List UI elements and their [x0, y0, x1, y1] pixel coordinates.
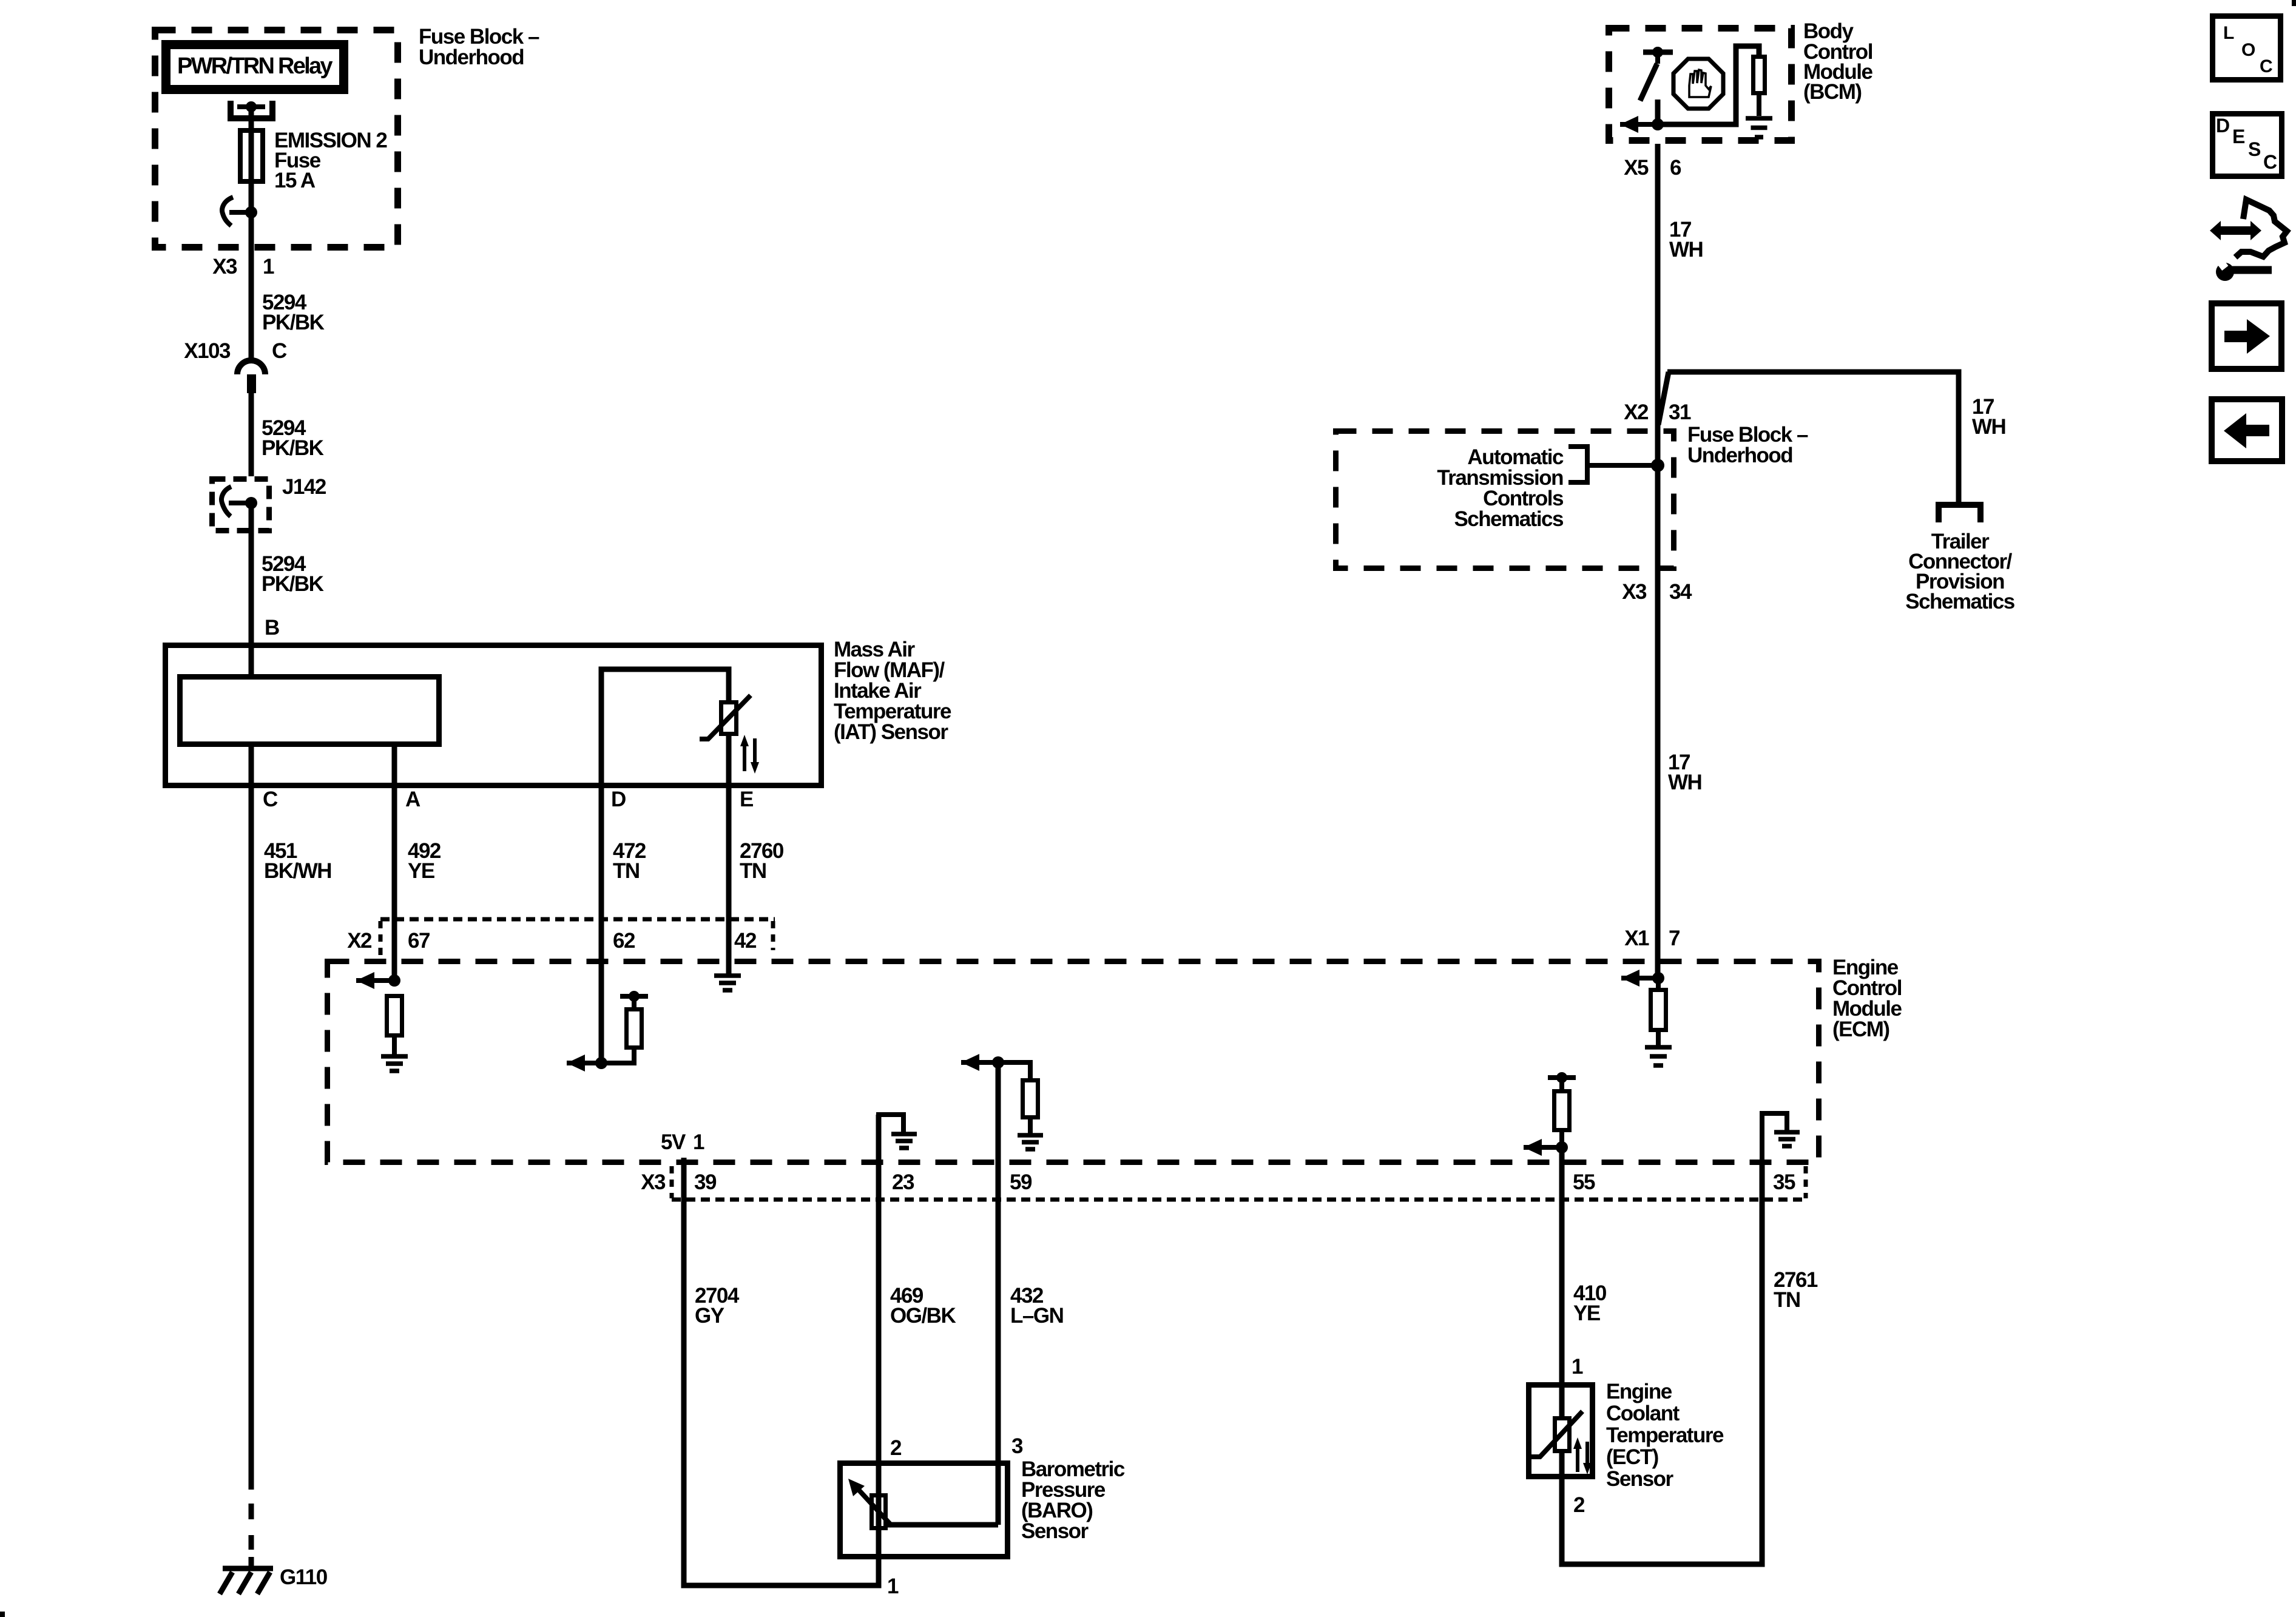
wire ECT 2 to 2761 TN — [1562, 1453, 1765, 1564]
fuse block underhood box (middle right) — [1336, 431, 1674, 569]
ECM pin 42 internal ground — [714, 976, 741, 990]
svg-text:59: 59 — [1010, 1170, 1032, 1194]
svg-text:34: 34 — [1669, 580, 1692, 604]
svg-text:C: C — [272, 339, 287, 363]
svg-text:X3: X3 — [212, 255, 237, 279]
svg-text:1: 1 — [693, 1130, 704, 1154]
switch contact hook — [222, 197, 233, 226]
icon next arrow box — [2212, 303, 2281, 369]
svg-text:BK/WH: BK/WH — [264, 859, 331, 883]
connector X3 band (ECM bottom) — [672, 1198, 1806, 1202]
fuse F1 EMISSION 2 15A — [240, 130, 263, 181]
ECM pin 59 internal: arrow, resistor, ground — [961, 1054, 979, 1071]
svg-text:1: 1 — [887, 1575, 899, 1598]
svg-text:42: 42 — [734, 929, 757, 953]
wire 451 BK/WH (C to G110) — [249, 747, 254, 1490]
svg-text:67: 67 — [408, 929, 430, 953]
svg-text:TN: TN — [613, 859, 640, 883]
svg-text:39: 39 — [694, 1170, 717, 1194]
wire fuse block exit to X103 — [249, 212, 254, 363]
trailer connector half symbol — [1939, 505, 1980, 522]
wire dashed to ground — [249, 1504, 254, 1567]
node fuse block junction — [1651, 459, 1664, 472]
relay contact terminals — [231, 101, 272, 118]
svg-text:C: C — [263, 788, 278, 811]
svg-text:A: A — [405, 788, 420, 811]
icon diagnostic wrench — [2210, 221, 2261, 240]
svg-text:TN: TN — [740, 859, 766, 883]
ECT sensor box — [1529, 1385, 1593, 1477]
wire branch to trailer — [1658, 372, 1669, 425]
icon back arrow box — [2212, 399, 2282, 461]
icon DESC box — [2213, 114, 2282, 177]
svg-text:1: 1 — [263, 255, 274, 279]
wire J142 to MAF — [249, 503, 254, 674]
wire 492 YE (A to ECM 67) — [392, 747, 397, 981]
ATC bracket symbol — [1568, 447, 1587, 482]
svg-text:J142: J142 — [282, 475, 326, 499]
splice J142 box — [212, 479, 269, 531]
svg-text:2: 2 — [890, 1436, 902, 1460]
ECM pin 23 internal ground hook — [879, 1115, 903, 1165]
svg-text:(IAT) Sensor: (IAT) Sensor — [834, 720, 948, 744]
wire through fuse block — [1655, 428, 1661, 571]
svg-text:Schematics: Schematics — [1454, 507, 1564, 531]
svg-text:TN: TN — [1774, 1288, 1800, 1312]
svg-text:PK/BK: PK/BK — [262, 311, 325, 334]
BCM box — [1609, 29, 1792, 141]
svg-text:62: 62 — [613, 929, 635, 953]
svg-text:E: E — [740, 788, 753, 811]
svg-text:Underhood: Underhood — [419, 46, 524, 69]
connector X103 symbol — [237, 360, 265, 374]
wire 17 WH (BCM to fuse block) — [1655, 144, 1661, 428]
ECM pin X1-7 internal: arrow, resistor, ground — [1621, 970, 1639, 987]
BCM switch — [1643, 50, 1673, 55]
svg-text:X2: X2 — [347, 929, 372, 953]
svg-text:31: 31 — [1669, 400, 1691, 424]
svg-text:X2: X2 — [1624, 400, 1649, 424]
wire 432 L-GN (59 to BARO 3) — [996, 1062, 1001, 1525]
svg-text:X3: X3 — [1622, 580, 1647, 604]
wire 469 OG/BK (23 to BARO 2) — [876, 1115, 882, 1493]
svg-text:Temperature: Temperature — [1606, 1423, 1724, 1447]
svg-text:S: S — [2248, 138, 2261, 160]
svg-text:X3: X3 — [641, 1170, 666, 1194]
svg-text:C: C — [2263, 151, 2277, 173]
svg-text:Schematics: Schematics — [1905, 590, 2015, 613]
svg-text:YE: YE — [408, 859, 434, 883]
hand symbol — [1689, 70, 1711, 97]
svg-text:5V: 5V — [661, 1130, 686, 1154]
svg-text:O: O — [2241, 40, 2255, 60]
svg-text:YE: YE — [1573, 1301, 1600, 1325]
svg-text:X103: X103 — [184, 339, 231, 363]
relay K1 PWR/TRN Relay label box — [166, 45, 344, 90]
svg-text:3: 3 — [1011, 1434, 1023, 1458]
icon LOC box — [2213, 16, 2281, 80]
BARO sensor box — [840, 1463, 1008, 1557]
svg-text:55: 55 — [1573, 1170, 1595, 1194]
wire 2761 TN (35 to ECT) — [1760, 1165, 1765, 1564]
splice J142 symbol — [221, 487, 231, 516]
svg-text:D: D — [611, 788, 626, 811]
ECM pin 35 internal ground hook — [1762, 1113, 1787, 1165]
svg-text:WH: WH — [1972, 415, 2005, 439]
svg-text:C: C — [2260, 56, 2272, 76]
svg-text:Coolant: Coolant — [1606, 1402, 1680, 1425]
connector X2 band — [380, 917, 775, 922]
ECT arrows up down — [1576, 1447, 1579, 1472]
svg-text:Sensor: Sensor — [1606, 1467, 1674, 1491]
wire 472 TN (D to ECM 62) — [599, 788, 604, 1063]
svg-text:D: D — [2216, 115, 2229, 137]
svg-text:35: 35 — [1773, 1170, 1795, 1194]
svg-text:(BCM): (BCM) — [1803, 80, 1862, 104]
wire BARO pin2 through pot — [876, 1493, 882, 1530]
BCM stop-hand octagon — [1673, 59, 1723, 109]
svg-text:WH: WH — [1669, 238, 1703, 262]
ECM pin 67 internal: arrow, resistor, ground — [356, 972, 374, 989]
node J142 — [245, 497, 257, 509]
svg-text:15 A: 15 A — [274, 169, 316, 192]
BCM internal resistor to ground — [1658, 46, 1759, 124]
svg-text:X5: X5 — [1624, 156, 1649, 180]
svg-text:OG/BK: OG/BK — [890, 1304, 956, 1328]
wire 2704 GY (39 to BARO 1) — [684, 1158, 879, 1585]
ground G110 chassis — [223, 1566, 273, 1571]
wire relay to fuse — [249, 107, 254, 214]
svg-text:WH: WH — [1668, 771, 1701, 794]
thermistor IAT — [721, 703, 737, 734]
svg-text:2: 2 — [1573, 1493, 1585, 1517]
svg-text:GY: GY — [695, 1304, 724, 1328]
wire to ATC bracket — [1587, 463, 1658, 468]
wire X103 to J142 — [249, 393, 254, 476]
svg-text:23: 23 — [892, 1170, 914, 1194]
corner marks — [0, 1612, 5, 1617]
svg-text:G110: G110 — [280, 1565, 328, 1589]
svg-text:(ECM): (ECM) — [1832, 1018, 1889, 1041]
svg-text:B: B — [265, 616, 279, 640]
ECM pin 55 internal: pullup resistor and arrow — [1548, 1075, 1576, 1080]
fuse block underhood box (top left) — [155, 30, 398, 248]
BCM arrow out — [1620, 116, 1638, 133]
thermistor ECT — [1555, 1419, 1570, 1451]
BARO potentiometer — [872, 1496, 886, 1528]
svg-text:(ECT): (ECT) — [1606, 1445, 1658, 1469]
BARO internal wire pin3 — [888, 1522, 998, 1528]
node below fuse — [245, 206, 257, 218]
wire 2760 TN (E to ECM 42) — [726, 788, 732, 974]
relay contact bar — [237, 104, 265, 109]
node relay output — [246, 101, 257, 112]
svg-text:PK/BK: PK/BK — [262, 572, 324, 596]
svg-text:L: L — [2223, 23, 2234, 43]
svg-text:6: 6 — [1670, 156, 1681, 180]
wire E thermistor to box bottom — [726, 736, 732, 788]
svg-text:Underhood: Underhood — [1687, 444, 1792, 467]
svg-text:1: 1 — [1572, 1355, 1583, 1379]
svg-text:Sensor: Sensor — [1021, 1519, 1089, 1543]
ECM pin 62 internal: pullup resistor and arrow — [620, 994, 648, 999]
svg-text:PK/BK: PK/BK — [262, 436, 324, 460]
wire 410 YE (55 to ECT 1) — [1559, 1147, 1565, 1416]
svg-text:L–GN: L–GN — [1010, 1304, 1063, 1328]
svg-text:X1: X1 — [1624, 927, 1649, 950]
svg-text:PWR/TRN Relay: PWR/TRN Relay — [177, 53, 333, 79]
svg-text:E: E — [2232, 126, 2245, 147]
MAF IAT sensor box — [166, 646, 822, 786]
svg-text:7: 7 — [1669, 927, 1680, 950]
ECM box — [328, 962, 1819, 1163]
IAT arrows up down — [743, 745, 746, 771]
svg-text:Engine: Engine — [1606, 1380, 1672, 1403]
wire D internal run — [601, 669, 729, 788]
wire 17 WH (fuse block to ECM X1-7) — [1655, 571, 1661, 978]
MAF inner element box — [180, 677, 439, 744]
